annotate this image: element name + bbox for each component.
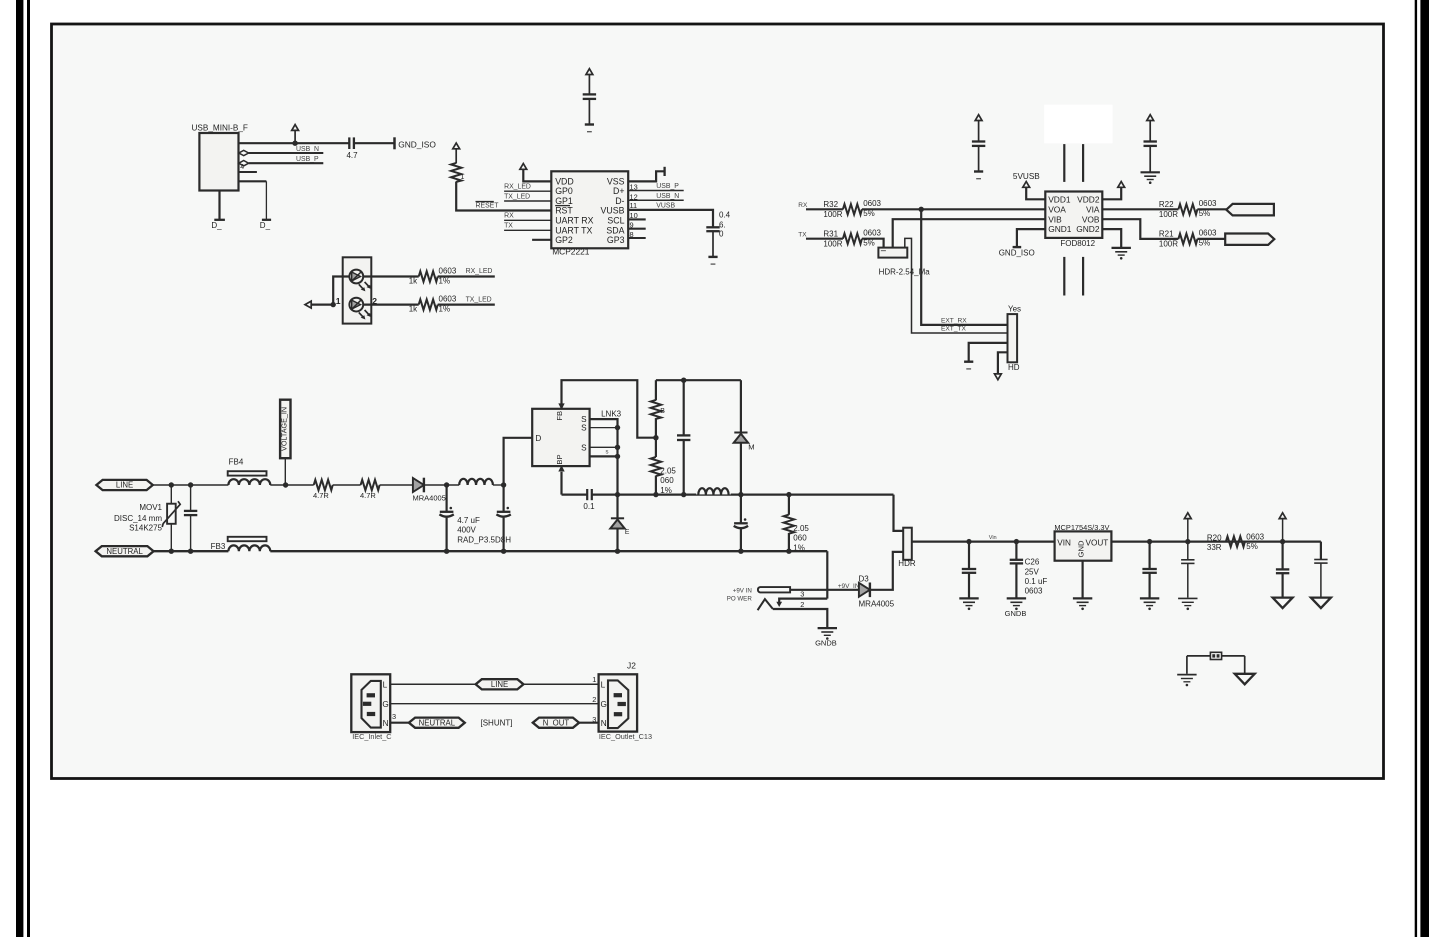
wire R22 to flag [1197,208,1226,210]
svg-text:IEC_Inlet_C: IEC_Inlet_C [352,732,391,741]
junction out cap A [966,539,971,544]
wire LINE 3 [333,484,361,486]
capacitor 4.7 [346,137,358,160]
wire TX to R31 [806,238,843,240]
wire R31 to header [862,239,884,248]
svg-text:VOA: VOA [1048,204,1066,214]
svg-text:VOLTAGE_IN: VOLTAGE_IN [280,407,289,451]
svg-text:4: 4 [240,164,244,171]
IC U4 MCP1754S body [1054,523,1111,561]
pin number 12 [630,192,638,201]
wire source rail left [562,494,588,496]
capacitor VUSB [706,210,730,238]
wire VIA to R22 [1102,208,1178,210]
svg-text:D_: D_ [260,221,271,230]
pin number 8 [630,230,634,239]
svg-text:4.7: 4.7 [346,151,358,160]
svg-text:HDR: HDR [898,559,916,568]
wire to riser [493,484,504,486]
svg-text:5VUSB: 5VUSB [1013,172,1040,181]
label EXT_TX [941,326,967,333]
svg-text:VOUT: VOUT [1086,538,1109,547]
svg-text:NEUTRAL: NEUTRAL [419,718,456,727]
white box above isolator [1044,105,1112,144]
wire ext_rx [921,209,1007,325]
net flag NEUTRAL [96,546,154,556]
junction source bus [615,492,620,497]
header Yes body [1008,305,1022,372]
svg-text:J2: J2 [627,661,636,671]
capacitor iso right [1144,115,1157,173]
wire LINE 2 [270,484,313,486]
pin number LED 1 [336,296,341,306]
page border right thin bar [1415,0,1417,937]
isolation barrier lower [1064,257,1083,296]
wire N inlet [390,722,409,724]
pin number inlet 3 [392,712,396,721]
ground triangle out E [1311,598,1331,609]
wire source rail [592,494,894,496]
wire USB_N [249,146,324,153]
svg-text:EXT_TX: EXT_TX [941,326,967,333]
wire VOUT rail [1111,540,1321,542]
wire USB_P [249,156,324,163]
svg-text:100R: 100R [823,210,842,219]
MCP2221 left pin names [555,176,593,245]
power arrow out D [1279,513,1286,542]
svg-text:C26: C26 [1025,558,1040,567]
svg-text:MCP1754S/3.3V: MCP1754S/3.3V [1054,523,1109,532]
header HDR body [898,528,916,568]
pin numbers outlet [592,675,596,724]
svg-text:FB3: FB3 [211,542,226,551]
wire VUSB [628,202,713,227]
svg-text:1%: 1% [793,543,805,552]
wire net RX_LED [438,268,495,276]
ferrite bead FB4 [228,457,271,485]
wire rail to HDR [894,495,904,531]
isolation barrier upper [1064,144,1083,182]
label +9V IN POWER [727,587,753,602]
wire G [390,703,598,705]
svg-text:LINE: LINE [491,680,508,689]
wire RX to R32 [806,208,843,210]
junction out cap B [1147,539,1152,544]
diode M clamp [734,380,755,494]
svg-text:1: 1 [336,296,341,306]
svg-text:GP1: GP1 [555,196,573,206]
FOD8012 left pin names [1048,194,1072,234]
wire jack tip [790,583,860,590]
svg-text:D_: D_ [211,221,222,230]
resistor R22 100R [1159,199,1217,219]
svg-text:100R: 100R [1159,240,1178,249]
junction RX ext [919,207,924,212]
capacitor out E [1314,560,1327,598]
LNK3 pin BP [555,454,564,464]
svg-text:s: s [606,450,609,456]
svg-text:VSS: VSS [607,176,625,186]
diode E [610,495,630,552]
label EXT_RX [941,318,967,325]
svg-text:4.7R: 4.7R [313,491,329,500]
svg-text:VUSB: VUSB [656,202,675,209]
wire GND2 [1102,229,1121,248]
resistor R20 33R [1207,532,1265,552]
svg-text:3: 3 [592,715,596,724]
svg-text:TX_LED: TX_LED [466,296,492,303]
junction out cap D [1280,539,1285,544]
svg-text:R22: R22 [1159,200,1174,209]
connector DC jack pin [758,587,790,592]
wire fb left [1186,656,1188,674]
svg-text:USB_N: USB_N [656,193,679,200]
wire top bias [656,379,741,381]
svg-text:L: L [383,680,388,689]
label SHUNT [481,718,513,727]
svg-text:FB: FB [555,411,564,421]
svg-text:RX_LED: RX_LED [466,268,493,275]
capacitor out C [1181,542,1194,598]
svg-text:TX: TX [798,231,807,238]
svg-text:GND2: GND2 [1076,224,1100,234]
wire cap to GND_ISO [354,142,395,144]
svg-text:1: 1 [461,174,465,181]
wire GP1 TX_LED [504,193,551,201]
svg-text:VIB: VIB [1048,214,1062,224]
gnd bar GND_ISO 2 [999,247,1035,258]
svg-text:VUSB: VUSB [601,206,625,216]
wire output rail [912,535,1055,542]
wire LINE in [153,484,229,486]
capacitor 4.7uF 400V [439,485,511,551]
page border right thick bar [1420,0,1429,937]
svg-text:VIN: VIN [1057,538,1071,547]
wire LINE 5 [424,484,459,486]
svg-text:2.05: 2.05 [660,466,676,475]
LNK3 pin FB [555,411,564,421]
gnd tick D_ right [260,220,271,230]
svg-text:4.7R: 4.7R [360,491,376,500]
svg-text:USB_P: USB_P [656,183,679,190]
svg-text:DISC_14 mm: DISC_14 mm [114,514,162,523]
junction bulk cap2 [501,482,506,487]
power arrow top cap [586,69,593,95]
svg-text:LNK3: LNK3 [601,409,622,418]
wire D- USB_N [628,193,684,200]
svg-text:LINE: LINE [116,481,133,490]
junction NEUTRAL mov [169,549,174,554]
wire D riser [504,438,533,485]
svg-text:1%: 1% [439,277,451,286]
capacitor out D [1276,542,1289,598]
junction bulk cap1 bottom [444,549,449,554]
svg-text:0603: 0603 [1199,199,1217,208]
stub GP3 [628,237,646,239]
header HDR-2.54 body [878,248,930,277]
connector IEC inlet body [351,674,391,741]
svg-text:N_OUT: N_OUT [543,718,570,727]
wire net TX_LED [438,296,495,304]
ground earth out A [959,598,978,610]
ground tick VUSB [708,257,717,264]
svg-text:RX: RX [504,213,514,220]
svg-text:N: N [383,719,389,728]
svg-text:Vin: Vin [989,535,997,541]
junction bulk cap2 bottom [501,549,506,554]
svg-text:3: 3 [800,589,804,598]
wire VIB to header [893,219,1046,247]
arrow FB pin [558,403,564,409]
svg-text:UART RX: UART RX [555,215,593,225]
svg-text:SCL: SCL [607,215,624,225]
junction bulk cap1 [444,482,449,487]
power arrow VDD2 [1118,182,1125,188]
svg-text:GNDB: GNDB [815,638,837,647]
junction diode M bottom [738,492,743,497]
svg-text:GND_ISO: GND_ISO [398,139,436,149]
svg-text:1%: 1% [439,305,451,314]
svg-text:G: G [601,700,607,709]
svg-text:2: 2 [800,600,804,609]
svg-text:0603: 0603 [1199,229,1217,238]
svg-text:2: 2 [592,695,596,704]
ground earth GND2 [1112,248,1131,260]
wire LED common [311,277,349,305]
junction S4 [615,454,620,459]
wire R32 to VOA [862,208,1045,210]
arrow BP pin [558,465,564,471]
svg-text:RESET: RESET [476,203,500,210]
svg-text:S: S [581,443,587,452]
ground earth iso right [1141,172,1160,184]
wire top cap lead [588,99,590,125]
junction C26 [1014,539,1019,544]
ferrite jumper FB [1187,652,1245,659]
svg-text:D+: D+ [613,186,625,196]
wire NEUTRAL 1 [154,550,229,552]
wire VBUS [239,142,350,144]
svg-text:USB_MINI-B_F: USB_MINI-B_F [192,124,248,133]
pin number 4 [240,164,244,171]
svg-text:S: S [581,424,587,433]
stub SDA [628,228,646,230]
svg-text:GP2: GP2 [555,235,573,245]
capacitor out A [962,542,976,598]
svg-text:GNDB: GNDB [1005,609,1027,618]
resistor RX_LED 1k [409,267,457,286]
IC U2 FOD8012 body [1045,192,1102,248]
svg-text:100R: 100R [1159,210,1178,219]
svg-text:PO WER: PO WER [727,596,753,603]
label TX [798,231,807,238]
resistor TX_LED 1k [409,295,457,314]
pin stub shield [239,171,257,173]
net flag LINE [96,480,152,490]
net flag N_OUT [533,718,579,728]
label 5VUSB [1013,172,1040,181]
svg-text:TX_LED: TX_LED [504,193,530,200]
gnd bar GND_ISO [395,137,437,149]
wire VDD [523,169,551,181]
IEC outlet face [608,680,628,728]
junction bias cap [681,378,686,383]
svg-text:GND1: GND1 [1048,224,1072,234]
resistor R32 100R [823,199,881,219]
MCP2221 right pin names [601,176,625,245]
svg-text:400V: 400V [457,526,476,535]
capacitor bulk 2 [496,485,510,551]
junction NEUTRAL cap [188,549,193,554]
pin number 11 [630,201,638,210]
wire header pin3 ext_tx [905,238,1008,333]
wire N outlet [579,722,599,724]
svg-text:Yes: Yes [1008,305,1021,314]
LNK3 pin D [535,434,541,443]
svg-text:VIA: VIA [1086,204,1100,214]
svg-text:FB4: FB4 [229,457,244,466]
ground tick iso left [974,172,983,179]
svg-text:R31: R31 [823,229,838,238]
pin number 9 [630,220,634,229]
junction fb node [653,435,658,440]
arrow LED common [305,301,311,308]
svg-text:4.7 uF: 4.7 uF [457,516,480,525]
MCP1754S pin names [1057,538,1108,557]
ground earth C26 GNDB [1005,598,1027,618]
svg-text:0.4: 0.4 [719,210,731,219]
svg-text:G: G [382,700,388,709]
net flag NEUTRAL mid [409,718,465,728]
svg-text:HD: HD [1008,363,1020,372]
svg-text:HDR-2.54_Ma: HDR-2.54_Ma [879,268,931,277]
wire jack pin3 [776,589,827,607]
svg-text:+9V_IN: +9V_IN [838,583,860,590]
arrow down Yes [995,374,1002,380]
svg-text:D: D [535,434,541,443]
svg-text:+9V IN: +9V IN [733,587,752,594]
svg-text:GND: GND [1076,540,1085,557]
svg-text:VDD1: VDD1 [1048,194,1071,204]
wire VOB to R21 [1102,219,1178,239]
wire shield2 [239,181,267,220]
wire fb right [1244,656,1246,674]
junction VBUS [292,141,297,146]
power arrow reset [453,143,460,163]
wire Yes bottom pin [998,352,1008,374]
wire LINE 4 [380,484,413,486]
capacitor line filter [184,485,197,551]
svg-text:0603: 0603 [439,295,457,304]
ground GNDB jack [815,628,837,647]
svg-text:33R: 33R [1207,543,1222,552]
svg-text:EXT_RX: EXT_RX [941,318,967,325]
capacitor 0.1 [583,489,595,511]
junction out cap C [1185,539,1190,544]
svg-text:SDA: SDA [606,225,624,235]
svg-text:VDD2: VDD2 [1077,194,1100,204]
svg-text:VDD: VDD [555,176,574,186]
wire Yes gnd [969,343,1008,362]
capacitor bias [677,380,690,494]
IEC inlet pin letters [382,680,388,728]
svg-text:MRA4005: MRA4005 [413,493,446,502]
wire L line [390,683,598,685]
resistor 2.05 060 second [784,495,810,553]
resistor 2.05 060 first [651,438,677,495]
net flag RX out [1226,204,1274,216]
svg-text:100R: 100R [823,239,842,248]
svg-text:0603: 0603 [1025,587,1043,596]
svg-text:R32: R32 [823,200,838,209]
wire UART RX [504,213,551,221]
junction bias cap bottom [681,492,686,497]
resistor reset 1 [451,163,465,182]
wire S pin3 [590,446,618,448]
net flag TX out [1225,234,1274,245]
junction sec res top [786,492,791,497]
wire LED2 to R [363,304,419,306]
capacitor iso left [972,115,985,172]
capacitor out B [1142,542,1156,598]
svg-text:2.05: 2.05 [793,524,809,533]
capacitor C26 [1010,542,1048,598]
junction fb res bottom [653,492,658,497]
junction sec res bottom [786,549,791,554]
stub GP2 [532,239,551,241]
svg-text:1: 1 [592,675,596,684]
wire reg gnd [1081,561,1083,598]
wire S pin2 [590,427,618,429]
svg-text:0603: 0603 [863,199,881,208]
svg-text:NEUTRAL: NEUTRAL [106,547,143,556]
svg-text:RX_LED: RX_LED [504,184,531,191]
ground triangle fb [1235,674,1255,685]
wire UART TX [504,223,551,231]
wire GND1 [1017,229,1045,247]
svg-text:6.: 6. [719,221,726,230]
junction diode E bottom [615,549,620,554]
IEC outlet pin letters [601,680,607,728]
svg-text:0603: 0603 [439,267,457,276]
resistor B [651,380,666,438]
svg-text:3: 3 [392,712,396,721]
ground earth out C [1178,598,1197,610]
wire RST net [456,182,551,211]
wire LED1 to R [363,275,419,277]
power arrow VBUS [292,125,299,144]
wire BP [560,472,562,495]
svg-text:M: M [748,443,754,452]
LNK3 pin S labels [581,415,587,452]
svg-text:D3: D3 [859,574,870,583]
ground earth fb [1177,675,1196,687]
svg-text:GP3: GP3 [607,235,625,245]
svg-text:UART TX: UART TX [555,225,592,235]
svg-text:D-: D- [615,196,624,206]
junction sec out [739,492,743,496]
wire NEUTRAL 2 [270,550,827,552]
diode MRA4005 input [413,478,446,503]
wire S pin4 [590,455,618,457]
power arrow out C [1184,513,1191,542]
net flag VOLTAGE_IN [280,400,291,485]
svg-text:MCP2221: MCP2221 [552,247,590,257]
svg-text:USB_P: USB_P [296,156,319,163]
label RESET [476,202,500,210]
svg-text:[SHUNT]: [SHUNT] [481,718,513,727]
ground triangle out D [1273,598,1293,609]
